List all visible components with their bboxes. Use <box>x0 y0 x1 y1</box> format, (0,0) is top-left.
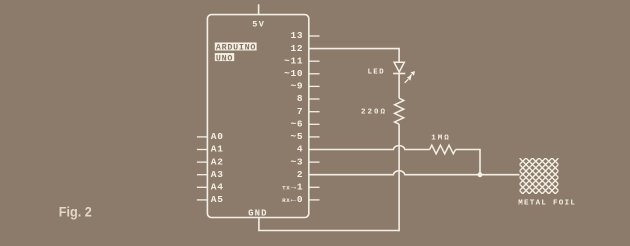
pin A5 stub <box>197 199 208 201</box>
resistor R1 220 ohm zigzag <box>395 98 404 124</box>
wire LED to resistor <box>398 74 400 99</box>
pin A4 stub <box>197 186 208 188</box>
svg-text:~9: ~9 <box>290 81 303 92</box>
svg-text:A2: A2 <box>211 156 224 167</box>
svg-text:~6: ~6 <box>290 119 303 130</box>
pin 8 stub <box>309 98 320 100</box>
pin 11 stub <box>309 60 320 62</box>
UNO badge <box>215 53 234 61</box>
pin 7 stub <box>309 111 320 113</box>
junction node dot <box>478 172 483 177</box>
svg-text:UNO: UNO <box>216 53 233 63</box>
svg-text:Fig. 2: Fig. 2 <box>59 204 92 220</box>
LED D1 triangle <box>394 62 404 72</box>
svg-text:~11: ~11 <box>284 55 303 66</box>
svg-text:7: 7 <box>297 106 303 117</box>
wire pin 12 to LED <box>309 49 399 63</box>
svg-text:12: 12 <box>290 43 303 54</box>
ARDUINO badge <box>215 43 257 51</box>
svg-text:A0: A0 <box>211 131 224 142</box>
metal foil sensor pad <box>520 158 559 194</box>
svg-text:LED: LED <box>367 69 385 77</box>
pin 9 stub <box>309 85 320 87</box>
pin A2 stub <box>197 161 208 163</box>
LED light arrow 2 <box>405 77 411 83</box>
pin A3 stub <box>197 174 208 176</box>
svg-text:13: 13 <box>290 30 303 41</box>
svg-text:8: 8 <box>297 93 303 104</box>
wire resistor to ground rail <box>398 124 400 231</box>
5V supply wire <box>258 4 260 14</box>
svg-text:GND: GND <box>248 208 268 218</box>
pin 6 stub <box>309 123 320 125</box>
pin A0 stub <box>197 136 208 138</box>
wire R2 down to junction <box>456 150 480 175</box>
svg-text:A4: A4 <box>211 182 224 193</box>
pin 0 stub <box>309 199 320 201</box>
svg-text:5V: 5V <box>252 20 265 30</box>
Arduino UNO box U1 <box>207 15 308 218</box>
pin 3 stub <box>309 161 320 163</box>
GND wire down from box <box>258 218 260 231</box>
svg-text:ARDUINO: ARDUINO <box>216 43 256 53</box>
svg-text:1MΩ: 1MΩ <box>431 135 451 143</box>
pin 5 stub <box>309 136 320 138</box>
svg-text:A5: A5 <box>211 194 224 205</box>
svg-text:~3: ~3 <box>290 156 303 167</box>
resistor R2 1M ohm zigzag <box>430 145 456 154</box>
svg-text:2: 2 <box>297 169 303 180</box>
LED light arrow 1 <box>408 72 414 78</box>
LED cathode bar <box>393 73 405 75</box>
svg-text:~5: ~5 <box>290 131 303 142</box>
pin 1 stub <box>309 186 320 188</box>
svg-text:A1: A1 <box>211 144 224 155</box>
svg-text:A3: A3 <box>211 169 224 180</box>
svg-text:~10: ~10 <box>284 68 303 79</box>
svg-text:METAL FOIL: METAL FOIL <box>518 199 576 207</box>
wire pin 4 to R2 with hop over LED column <box>309 145 430 149</box>
svg-text:220Ω: 220Ω <box>361 109 387 117</box>
pin 13 stub <box>309 35 320 37</box>
ground return rail wire <box>258 230 399 232</box>
wire pin 2 to metal foil with hop over LED column <box>309 171 520 175</box>
pin 10 stub <box>309 73 320 75</box>
pin A1 stub <box>197 149 208 151</box>
svg-text:4: 4 <box>297 144 303 155</box>
